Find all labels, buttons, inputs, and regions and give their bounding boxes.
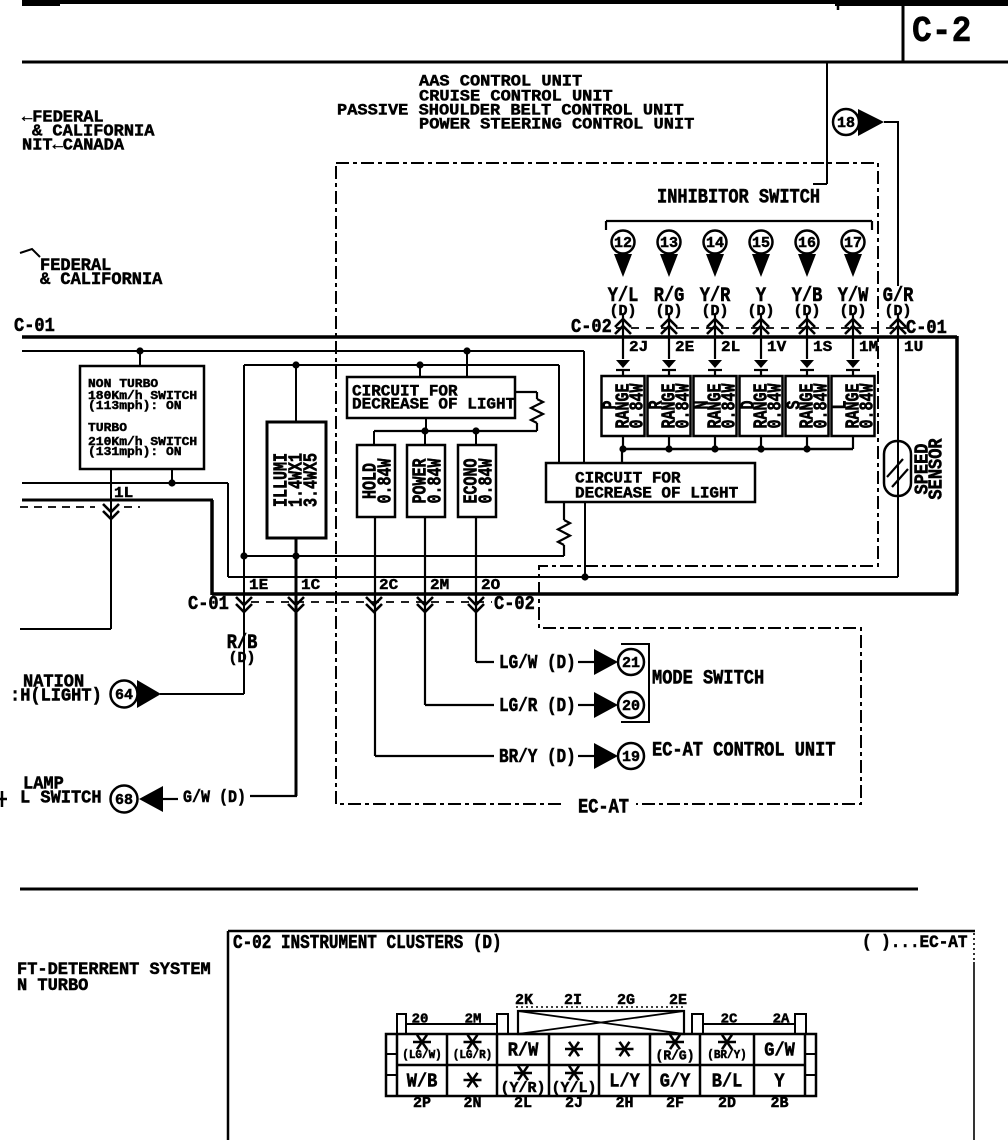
svg-text::H(LIGHT): :H(LIGHT) — [10, 686, 102, 707]
svg-text:2F: 2F — [666, 1095, 684, 1112]
svg-text:R/W: R/W — [508, 1041, 539, 1062]
svg-text:( )...EC-AT: ( )...EC-AT — [862, 933, 967, 953]
svg-text:2M: 2M — [430, 577, 449, 595]
svg-text:(131mph): ON: (131mph): ON — [88, 445, 182, 458]
svg-text:DECREASE OF LIGHT: DECREASE OF LIGHT — [575, 485, 739, 503]
svg-text:DECREASE OF LIGHT: DECREASE OF LIGHT — [352, 396, 516, 414]
svg-text:1C: 1C — [301, 577, 320, 595]
svg-text:17: 17 — [844, 235, 862, 252]
svg-text:2K: 2K — [515, 992, 533, 1009]
svg-text:2H: 2H — [615, 1095, 633, 1112]
svg-text:& CALIFORNIA: & CALIFORNIA — [40, 270, 163, 290]
svg-text:2O: 2O — [481, 577, 500, 595]
svg-text:1E: 1E — [249, 577, 268, 595]
svg-text:2B: 2B — [770, 1095, 788, 1112]
svg-text:(BR/Y): (BR/Y) — [707, 1050, 747, 1062]
svg-text:1U: 1U — [904, 339, 923, 357]
svg-text:2J: 2J — [565, 1095, 583, 1112]
svg-text:C-01: C-01 — [14, 316, 55, 337]
svg-text:G/W: G/W — [764, 1041, 795, 1062]
svg-text:0.84W: 0.84W — [858, 383, 879, 428]
svg-text:2D: 2D — [718, 1095, 736, 1112]
svg-text:1S: 1S — [813, 339, 832, 357]
svg-text:2P: 2P — [413, 1095, 431, 1112]
svg-text:0.84W: 0.84W — [426, 458, 447, 503]
svg-text:2C: 2C — [721, 1012, 738, 1028]
svg-text:1M: 1M — [859, 339, 878, 357]
svg-text:W/B: W/B — [407, 1072, 438, 1093]
svg-text:15: 15 — [752, 235, 770, 252]
svg-text:21: 21 — [622, 655, 640, 672]
svg-text:C-2: C-2 — [912, 12, 971, 53]
svg-text:POWER STEERING CONTROL UNIT: POWER STEERING CONTROL UNIT — [419, 115, 695, 133]
svg-text:1L: 1L — [114, 485, 133, 503]
svg-text:(113mph): ON: (113mph): ON — [88, 399, 182, 412]
svg-text:(R/G): (R/G) — [656, 1048, 695, 1063]
svg-text:C-02 INSTRUMENT CLUSTERS (D): C-02 INSTRUMENT CLUSTERS (D) — [233, 933, 502, 955]
svg-text:13: 13 — [660, 235, 678, 252]
svg-text:C-02: C-02 — [494, 594, 535, 615]
svg-text:EC-AT: EC-AT — [578, 795, 629, 819]
svg-text:2C: 2C — [379, 577, 398, 595]
svg-text:2J: 2J — [629, 339, 648, 357]
svg-text:L/Y: L/Y — [609, 1072, 640, 1093]
svg-text:(LG/R): (LG/R) — [453, 1050, 493, 1062]
svg-text:INHIBITOR SWITCH: INHIBITOR SWITCH — [657, 186, 820, 209]
svg-text:SENSOR: SENSOR — [927, 438, 948, 499]
svg-text:68: 68 — [115, 792, 133, 809]
svg-text:20: 20 — [412, 1012, 429, 1028]
svg-text:3.4WX5: 3.4WX5 — [302, 453, 323, 507]
svg-text:2L: 2L — [514, 1095, 532, 1112]
svg-text:2L: 2L — [721, 339, 740, 357]
svg-text:20: 20 — [622, 698, 640, 715]
svg-text:N TURBO: N TURBO — [17, 976, 88, 996]
svg-text:2N: 2N — [463, 1095, 481, 1112]
svg-text:LG/R (D): LG/R (D) — [499, 696, 576, 718]
svg-text:2E: 2E — [675, 339, 694, 357]
svg-text:L SWITCH: L SWITCH — [20, 788, 102, 809]
svg-text:12: 12 — [614, 235, 632, 252]
svg-text:NIT←CANADA: NIT←CANADA — [22, 136, 125, 155]
svg-text:2A: 2A — [773, 1012, 790, 1028]
svg-text:0.84W: 0.84W — [477, 458, 498, 503]
svg-text:LG/W (D): LG/W (D) — [499, 653, 576, 675]
svg-text:TURBO: TURBO — [88, 421, 128, 434]
svg-text:G/W (D): G/W (D) — [183, 787, 246, 808]
svg-text:18: 18 — [837, 115, 855, 132]
svg-text:B/L: B/L — [712, 1072, 743, 1093]
svg-text:64: 64 — [115, 687, 133, 704]
svg-text:2E: 2E — [669, 992, 687, 1009]
svg-text:14: 14 — [706, 235, 724, 252]
svg-text:C-01: C-01 — [188, 594, 229, 615]
svg-text:Y: Y — [774, 1072, 784, 1093]
svg-text:BR/Y (D): BR/Y (D) — [499, 747, 576, 769]
svg-text:EC-AT CONTROL UNIT: EC-AT CONTROL UNIT — [652, 738, 836, 762]
svg-text:16: 16 — [798, 235, 816, 252]
svg-text:MODE SWITCH: MODE SWITCH — [652, 666, 764, 690]
svg-text:(LG/W): (LG/W) — [402, 1050, 442, 1062]
svg-text:2G: 2G — [617, 992, 635, 1009]
svg-text:0.84W: 0.84W — [376, 458, 397, 503]
svg-text:G/Y: G/Y — [660, 1072, 691, 1093]
svg-text:(D): (D) — [228, 650, 255, 667]
svg-text:2M: 2M — [465, 1012, 482, 1028]
svg-text:19: 19 — [622, 749, 640, 766]
svg-text:1V: 1V — [767, 339, 787, 357]
svg-text:2I: 2I — [564, 992, 582, 1009]
